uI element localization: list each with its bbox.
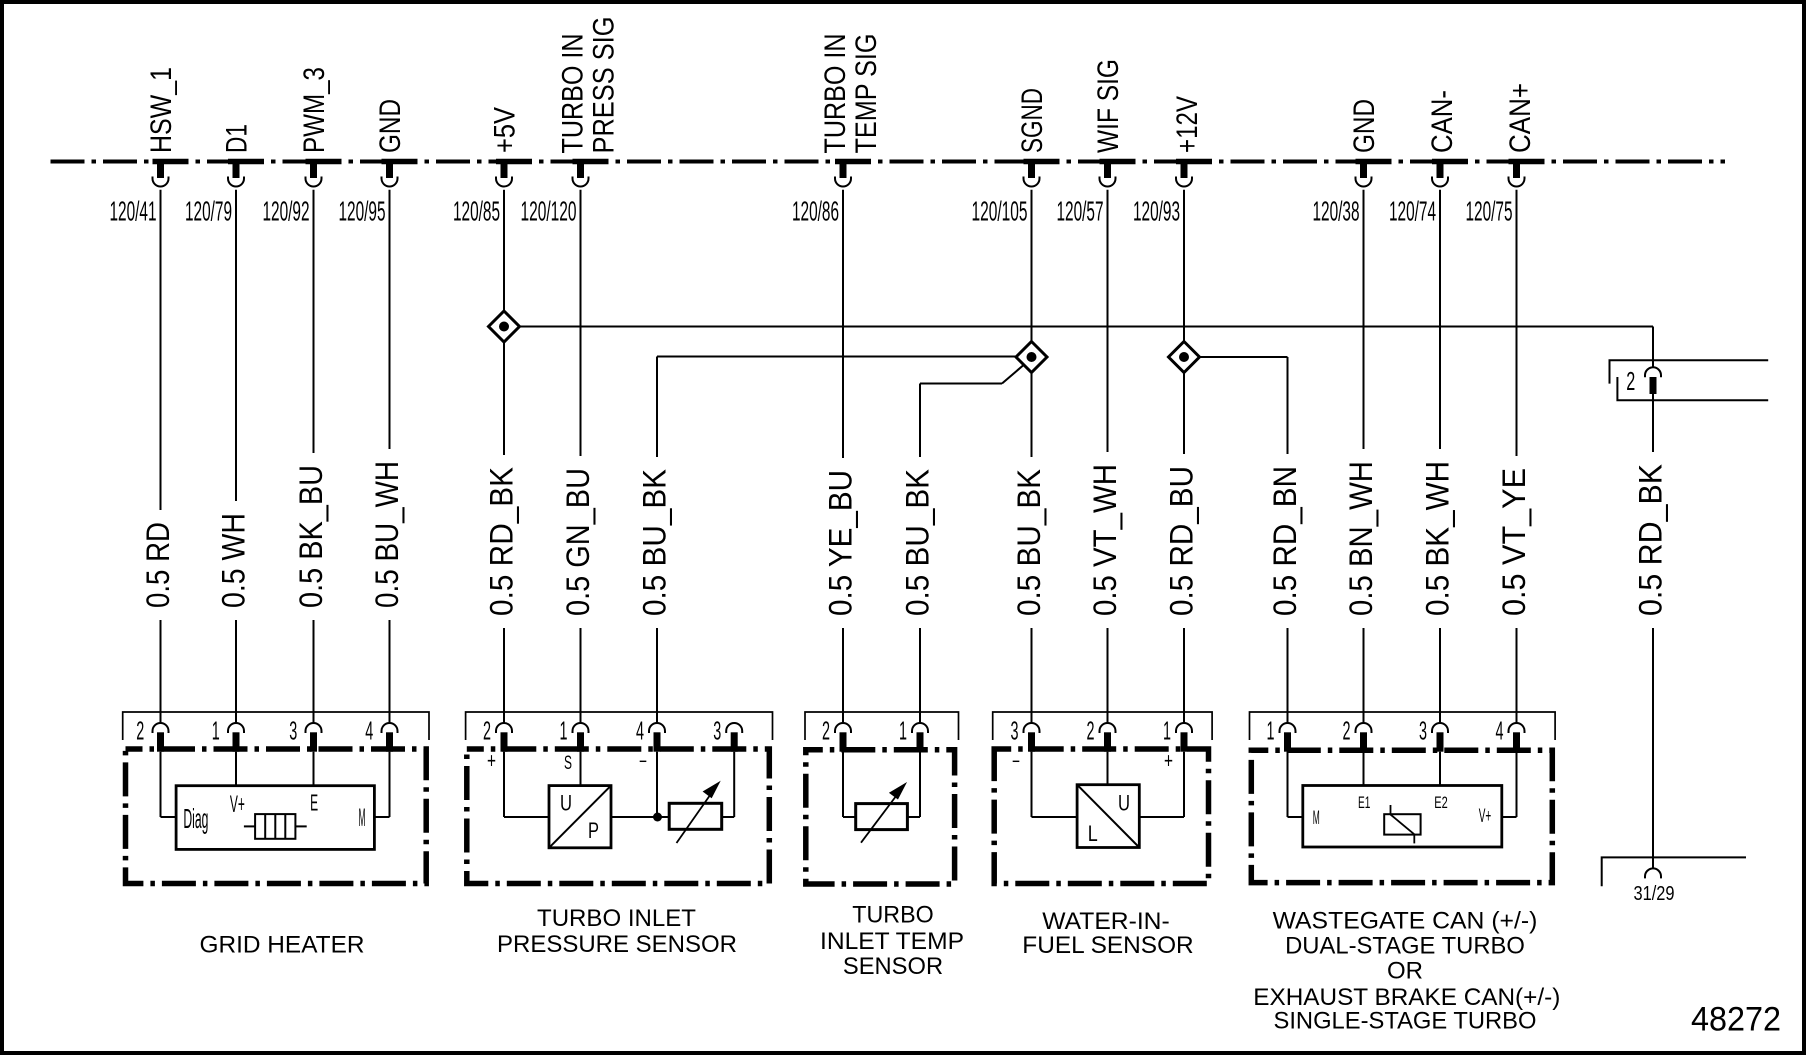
svg-text:0.5 BN_WH: 0.5 BN_WH	[1343, 461, 1379, 616]
svg-text:PWM_3: PWM_3	[298, 67, 331, 153]
grid heater connector header	[123, 712, 429, 740]
svg-text:0.5 RD_BN: 0.5 RD_BN	[1267, 466, 1303, 616]
svg-text:120/95: 120/95	[339, 196, 386, 227]
wire 0.5 RD_BK at x=1653	[1633, 394, 1669, 868]
svg-text:3: 3	[1011, 716, 1019, 746]
svg-text:4: 4	[365, 716, 373, 746]
pressure sensor polarity labels	[487, 748, 647, 774]
svg-text:HSW_1: HSW_1	[145, 67, 178, 153]
svg-text:TURBO IN: TURBO IN	[819, 34, 852, 154]
WIF sensor box (dash-dot)	[994, 749, 1208, 884]
temp sensor pin 1	[899, 716, 928, 752]
temp sensor internal wires	[843, 752, 920, 817]
pressure sensor U/P transducer box	[549, 786, 611, 848]
ECU pin 120/38 net GND	[1313, 99, 1392, 227]
svg-text:−: −	[1012, 751, 1020, 773]
svg-text:0.5 RD_BU: 0.5 RD_BU	[1164, 466, 1200, 616]
svg-text:1: 1	[1267, 716, 1275, 746]
inline connector housing brackets	[1610, 360, 1769, 400]
svg-text:CAN+: CAN+	[1504, 83, 1537, 153]
svg-text:1: 1	[899, 716, 907, 746]
grid heater internal wires	[161, 752, 390, 817]
svg-text:120/93: 120/93	[1133, 196, 1180, 227]
ECU pin 120/41 net HSW_1	[110, 67, 189, 227]
grid heater pin 1	[212, 716, 244, 752]
caption GRID HEATER	[200, 931, 365, 958]
svg-text:0.5 VT_YE: 0.5 VT_YE	[1496, 468, 1532, 616]
svg-text:1: 1	[1163, 716, 1171, 746]
svg-text:V+: V+	[1479, 806, 1492, 827]
ECU pin 120/57 net WIF SIG	[1057, 59, 1136, 227]
svg-text:INLET TEMP: INLET TEMP	[820, 928, 964, 955]
svg-text:2: 2	[136, 716, 144, 746]
svg-text:0.5 YE_BU: 0.5 YE_BU	[823, 470, 859, 616]
WIF sensor L/U box	[1077, 785, 1139, 848]
svg-text:120/105: 120/105	[972, 196, 1028, 227]
svg-text:3: 3	[289, 716, 297, 746]
svg-text:120/74: 120/74	[1389, 196, 1436, 227]
caption WASTEGATE CAN DUAL-STAGE TURBO OR EXHAUST BRAKE CAN SINGLE-STAGE TURBO	[1253, 908, 1560, 1035]
drawing number 48272	[1691, 1001, 1781, 1039]
svg-text:2: 2	[1087, 716, 1095, 746]
svg-text:S: S	[564, 753, 572, 774]
WIF sensor connector header	[993, 712, 1212, 740]
svg-text:120/41: 120/41	[110, 196, 157, 227]
caption TURBO INLET TEMP SENSOR	[820, 902, 964, 981]
svg-text:GRID HEATER: GRID HEATER	[200, 931, 365, 958]
caption WATER-IN-FUEL SENSOR	[1022, 908, 1193, 959]
WIF sensor pin 2	[1087, 716, 1116, 752]
svg-text:0.5 RD_BK: 0.5 RD_BK	[1633, 464, 1669, 616]
wire 0.5 VT_WH at x=1107.5	[1087, 190, 1123, 723]
svg-text:3: 3	[713, 716, 721, 746]
pressure sensor box (dash-dot)	[467, 749, 770, 884]
svg-text:0.5 BU_WH: 0.5 BU_WH	[369, 461, 405, 608]
svg-text:120/92: 120/92	[263, 196, 310, 227]
WIF sensor pin 1	[1163, 716, 1192, 752]
svg-text:31/29: 31/29	[1634, 883, 1675, 905]
svg-text:120/38: 120/38	[1313, 196, 1360, 227]
caption TURBO INLET PRESSURE SENSOR	[497, 905, 737, 958]
grid heater pin 3	[289, 716, 321, 752]
wire splice S3 right branch to RD_BN (x=1287.5)	[1200, 356, 1288, 358]
wire splice S2 left branch to BU_BK (x=657)	[657, 356, 1016, 358]
wire 0.5 BK_WH at x=1440	[1420, 190, 1456, 723]
svg-text:L: L	[1088, 821, 1098, 846]
svg-text:−: −	[639, 751, 647, 773]
svg-text:PRESSURE SENSOR: PRESSURE SENSOR	[497, 931, 737, 958]
pressure sensor internal wires	[504, 752, 734, 817]
wastegate pin 2	[1343, 716, 1372, 752]
svg-text:TURBO INLET: TURBO INLET	[537, 905, 696, 932]
svg-text:DUAL-STAGE TURBO: DUAL-STAGE TURBO	[1285, 933, 1525, 960]
wire 0.5 BU_BK at x=657	[637, 357, 673, 724]
svg-text:4: 4	[636, 716, 644, 746]
svg-text:48272: 48272	[1691, 1001, 1781, 1039]
wire 0.5 RD at x=160.5	[140, 190, 176, 723]
svg-text:3: 3	[1419, 716, 1427, 746]
svg-text:PRESS SIG: PRESS SIG	[588, 17, 621, 154]
svg-text:SENSOR: SENSOR	[843, 953, 943, 980]
svg-text:U: U	[1118, 791, 1130, 816]
wire 0.5 YE_BU at x=843	[823, 190, 859, 723]
pressure sensor pin 3	[713, 716, 742, 752]
svg-text:WATER-IN-: WATER-IN-	[1042, 908, 1169, 935]
temp sensor box (dash-dot)	[806, 750, 955, 884]
svg-text:2: 2	[1343, 716, 1351, 746]
splice S3 on +12V wire	[1169, 342, 1200, 373]
grid heater device box	[176, 786, 374, 850]
svg-text:0.5 GN_BU: 0.5 GN_BU	[560, 468, 596, 616]
wastegate terminal labels	[1313, 793, 1491, 829]
svg-text:1: 1	[560, 716, 568, 746]
svg-text:SINGLE-STAGE TURBO: SINGLE-STAGE TURBO	[1274, 1007, 1537, 1034]
wire 0.5 BN_WH at x=1363.5	[1343, 190, 1379, 723]
svg-text:+: +	[487, 748, 496, 773]
ECU pin 120/93 net +12V	[1133, 96, 1212, 227]
wastegate pin 1	[1267, 716, 1296, 752]
wire splice S1 to inline connector (y=326.5)	[520, 326, 1654, 328]
pressure sensor junction dot	[653, 813, 662, 822]
svg-text:0.5 WH: 0.5 WH	[216, 513, 252, 608]
ECU pin 120/95 net GND	[339, 99, 418, 227]
wire 0.5 BK_BU at x=313.5	[293, 190, 329, 723]
svg-text:120/85: 120/85	[453, 196, 500, 227]
svg-text:GND: GND	[374, 99, 407, 153]
ECU pin 120/105 net SGND	[972, 88, 1060, 227]
wire 0.5 VT_YE at x=1516.5	[1496, 190, 1532, 723]
svg-text:GND: GND	[1348, 99, 1381, 153]
svg-text:M: M	[359, 804, 366, 832]
svg-text:Diag: Diag	[183, 803, 208, 834]
wire 0.5 RD_BU at x=1184	[1164, 190, 1200, 723]
wastegate pin 3	[1419, 716, 1448, 752]
svg-text:0.5 BU_BK: 0.5 BU_BK	[900, 469, 936, 616]
WIF sensor polarity labels	[1012, 748, 1173, 773]
wastegate pin 4	[1496, 716, 1525, 752]
svg-text:FUEL SENSOR: FUEL SENSOR	[1022, 932, 1193, 959]
svg-text:E2: E2	[1434, 793, 1448, 812]
heater element symbol	[244, 814, 307, 839]
svg-text:0.5 BU_BK: 0.5 BU_BK	[637, 469, 673, 616]
wastegate internal wires	[1288, 752, 1517, 817]
WIF sensor internal wires	[1032, 752, 1185, 817]
ECU pin 120/85 net +5V	[453, 107, 532, 227]
pressure sensor connector header	[466, 712, 773, 740]
svg-text:CAN-: CAN-	[1426, 90, 1459, 153]
wastegate device box	[1303, 786, 1502, 848]
pressure sensor pin 2	[483, 716, 512, 752]
svg-text:0.5 BK_WH: 0.5 BK_WH	[1420, 461, 1456, 616]
svg-text:+5V: +5V	[489, 107, 522, 153]
svg-text:4: 4	[1496, 716, 1504, 746]
svg-text:0.5 BU_BK: 0.5 BU_BK	[1011, 469, 1047, 616]
svg-text:2: 2	[483, 716, 491, 746]
svg-text:1: 1	[212, 716, 220, 746]
wire 0.5 BU_BK at x=1031.5	[1011, 190, 1047, 723]
svg-text:P: P	[588, 818, 599, 843]
splice S2 on SGND wire	[1016, 342, 1047, 373]
svg-text:D1: D1	[221, 124, 254, 153]
svg-text:0.5 BK_BU: 0.5 BK_BU	[293, 465, 329, 608]
temp sensor connector header	[805, 712, 959, 740]
svg-text:TEMP SIG: TEMP SIG	[850, 34, 883, 154]
wire 0.5 RD_BK at x=504	[484, 190, 520, 723]
svg-text:M: M	[1313, 808, 1320, 829]
svg-text:0.5 RD_BK: 0.5 RD_BK	[484, 467, 520, 616]
wire 0.5 RD_BN at x=1287.5	[1267, 357, 1303, 723]
svg-text:120/79: 120/79	[185, 196, 232, 227]
wire 0.5 BU_WH at x=389.5	[369, 190, 405, 723]
wastegate box (dash-dot)	[1251, 750, 1552, 882]
svg-text:0.5 VT_WH: 0.5 VT_WH	[1087, 464, 1123, 616]
svg-text:OR: OR	[1387, 958, 1423, 985]
ECU pin 120/75 net CAN+	[1466, 83, 1545, 227]
wire RD_BK drop from splice line to inline connector	[1652, 327, 1654, 368]
svg-text:WIF SIG: WIF SIG	[1092, 59, 1125, 153]
ECU pin 120/79 net D1	[185, 124, 264, 227]
temp sensor pin 2	[822, 716, 851, 752]
svg-text:SGND: SGND	[1016, 88, 1049, 153]
svg-text:2: 2	[822, 716, 830, 746]
svg-text:120/57: 120/57	[1057, 196, 1104, 227]
inline connector pin 2 socket and pin	[1626, 366, 1661, 396]
ECU pin 120/86 net TURBO IN	[792, 34, 883, 227]
ECU pin 120/92 net PWM_3	[263, 67, 342, 227]
svg-text:2: 2	[1626, 366, 1635, 396]
grid heater pin 2	[136, 716, 168, 752]
svg-text:U: U	[560, 791, 572, 816]
ECU bus (dash-dot harness line)	[51, 160, 1726, 164]
svg-text:+12V: +12V	[1171, 96, 1204, 153]
svg-text:V+: V+	[230, 791, 245, 818]
connector 31/29 socket	[1634, 868, 1675, 905]
pressure sensor variable resistor	[669, 782, 722, 843]
svg-text:E: E	[310, 790, 318, 816]
wire splice S2 diagonal branch to BU_BK (x=920)	[920, 366, 1023, 384]
svg-text:TURBO: TURBO	[852, 902, 933, 929]
pressure sensor pin 1	[560, 716, 589, 752]
ECU pin 120/120 net TURBO IN	[521, 17, 621, 227]
wire 0.5 GN_BU at x=580.5	[560, 190, 596, 723]
connector 31/29 bracket	[1602, 857, 1746, 886]
pressure sensor pin 4	[636, 716, 665, 752]
WIF sensor pin 3	[1011, 716, 1040, 752]
svg-text:0.5 RD: 0.5 RD	[140, 522, 176, 608]
grid heater pin 4	[365, 716, 397, 752]
svg-text:+: +	[1164, 748, 1173, 773]
svg-text:120/86: 120/86	[792, 196, 839, 227]
grid heater box (dash-dot)	[126, 749, 427, 884]
svg-text:E1: E1	[1358, 793, 1370, 812]
svg-text:120/75: 120/75	[1466, 196, 1513, 227]
ECU pin 120/74 net CAN-	[1389, 90, 1468, 227]
grid heater terminal labels	[183, 790, 365, 835]
svg-text:WASTEGATE CAN (+/-): WASTEGATE CAN (+/-)	[1273, 908, 1538, 935]
wastegate solenoid symbol	[1384, 805, 1420, 843]
svg-text:TURBO IN: TURBO IN	[557, 34, 590, 154]
svg-text:120/120: 120/120	[521, 196, 577, 227]
wastegate connector header	[1250, 712, 1556, 740]
wire 0.5 WH at x=236	[216, 190, 252, 723]
splice S1 on +5V wire	[489, 311, 520, 342]
temp sensor variable resistor	[856, 783, 908, 842]
wire 0.5 BU_BK at x=920	[900, 384, 936, 724]
